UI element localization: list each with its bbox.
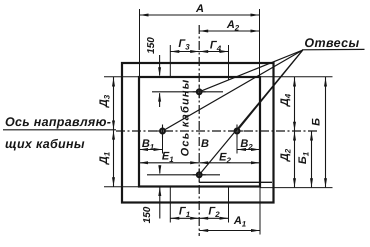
plumb point right (235, 129, 240, 134)
dimension B right vertical (325, 77, 327, 187)
svg-text:150: 150 (146, 37, 157, 54)
svg-text:щих кабины: щих кабины (5, 137, 85, 151)
extension line G3 left (169, 45, 171, 77)
line through top plumb (152, 91, 223, 93)
plumb point left (160, 129, 165, 134)
outer shaft wall rectangle (122, 63, 274, 203)
svg-text:Отвесы: Отвесы (304, 36, 359, 50)
dimension B1 right vertical (311, 131, 313, 187)
inner shaft wall rectangle (139, 77, 260, 187)
extension line A1 right down (259, 187, 261, 235)
dimension E2 (199, 162, 260, 164)
vertical cabin axis centerline (198, 25, 200, 236)
dimension E1 (139, 162, 199, 164)
dimension A2 (199, 30, 259, 32)
leader to right plumb (239, 50, 303, 129)
extension line inner left wall up (139, 9, 141, 77)
extension line inner bottom left out (104, 186, 139, 188)
dimension G3 (170, 51, 199, 53)
dimension 150 top (159, 55, 161, 76)
horizontal guide axis centerline (116, 130, 318, 132)
svg-text:Б: Б (311, 118, 323, 126)
dimension A1 (199, 230, 260, 232)
leader to left plumb (165, 50, 303, 130)
svg-text:А: А (195, 3, 204, 15)
dimension G1 (170, 217, 199, 219)
extension line inner top right out (260, 76, 333, 78)
dimension D1 vertical (113, 130, 115, 186)
extension line G1 left down (169, 187, 171, 223)
leader to bottom plumb (201, 50, 303, 172)
dimension V1 (139, 149, 163, 151)
right bottom extension line for B columns (260, 187, 333, 189)
line through bottom plumb (147, 174, 220, 176)
axis label underline left (3, 129, 116, 131)
extension line inner top left out (104, 76, 139, 78)
dimension D4 vertical (294, 77, 296, 131)
extension line G2 right down (228, 187, 230, 223)
plumb point bottom (197, 172, 202, 177)
extension tick below left plumb (162, 137, 164, 154)
svg-text:В: В (201, 138, 209, 150)
dimension D2 vertical (294, 131, 296, 187)
dimension 150 bottom (159, 165, 161, 173)
svg-text:150: 150 (142, 206, 153, 223)
dimension G4 (199, 51, 228, 53)
dimension A (140, 14, 260, 16)
extension line inner right wall up (259, 9, 261, 77)
dimension G2 (199, 217, 228, 219)
extension tick below right plumb (236, 137, 238, 154)
svg-text:Ось направляю-: Ось направляю- (5, 115, 111, 129)
leader to top plumb (202, 50, 303, 91)
dimension V2 (237, 149, 260, 151)
extension line G4 right (228, 45, 230, 80)
plumb point top (197, 89, 202, 94)
dimension D3 vertical (113, 77, 115, 130)
door threshold line bottom right (199, 181, 272, 183)
